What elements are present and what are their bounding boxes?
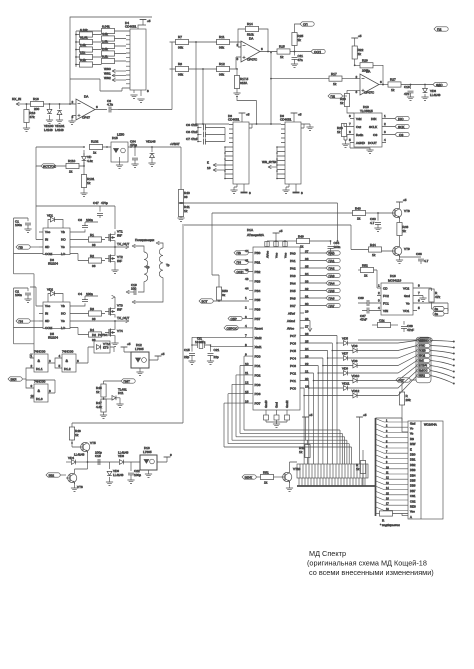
- svg-text:36k: 36k: [178, 46, 183, 50]
- svg-text:TX_OUT: TX_OUT: [117, 316, 129, 320]
- svg-text:3: 3: [384, 130, 386, 134]
- resistor R54 bottom: [372, 319, 398, 328]
- resistor R18 to gnd: [24, 104, 36, 128]
- svg-text:R17: R17: [331, 72, 337, 76]
- svg-text:AVcc: AVcc: [266, 251, 270, 258]
- wire connector to thick bus: [299, 478, 365, 486]
- resistor R8: [172, 62, 217, 77]
- ground D10 AGND: [350, 143, 374, 154]
- svg-text:22p: 22p: [214, 355, 219, 359]
- svg-text:D1.2: D1.2: [64, 367, 71, 371]
- svg-text:PA4: PA4: [290, 282, 296, 286]
- svg-text:100n: 100n: [15, 293, 22, 297]
- net flag out3: [433, 82, 447, 87]
- svg-text:LL4148: LL4148: [118, 451, 129, 455]
- svg-text:1: 1: [384, 114, 386, 118]
- svg-text:R110: R110: [68, 159, 75, 163]
- svg-text:5: 5: [418, 306, 420, 310]
- svg-text:PA6: PA6: [290, 297, 296, 301]
- svg-text:LO: LO: [61, 326, 66, 330]
- svg-text:WC1604A: WC1604A: [424, 423, 437, 427]
- ground C04: [131, 164, 138, 167]
- svg-text:IRF: IRF: [117, 234, 122, 238]
- svg-text:8.2k: 8.2k: [80, 58, 86, 62]
- svg-text:4.7н: 4.7н: [107, 103, 113, 107]
- svg-text:8: 8: [147, 89, 149, 93]
- op-amp D5 OP37: [70, 95, 107, 122]
- node dot R7/R11: [195, 41, 238, 70]
- ground C30: [374, 228, 381, 231]
- svg-text:6: 6: [380, 80, 382, 84]
- resistor R110: [66, 159, 79, 174]
- svg-text:R52: R52: [362, 264, 368, 268]
- svg-text:ПН: ПН: [237, 261, 241, 265]
- diode VD146: [146, 140, 156, 164]
- svg-text:OP07C: OP07C: [364, 91, 375, 95]
- transistor VT5: [72, 441, 96, 462]
- svg-text:FC1: FC1: [383, 302, 389, 306]
- svg-text:LO: LO: [61, 252, 66, 256]
- resistor R11: [217, 35, 242, 50]
- svg-text:2: 2: [378, 291, 380, 295]
- capacitor C2 100n: [15, 288, 31, 299]
- svg-text:DB2: DB2: [410, 463, 416, 467]
- svg-text:VD10: VD10: [352, 374, 360, 378]
- resistor R2: [74, 254, 105, 269]
- svg-text:PC0: PC0: [290, 387, 296, 391]
- resistor R29 feedback: [355, 59, 383, 85]
- power +5 D12 out: [155, 352, 165, 356]
- node dots D8 bus: [224, 146, 226, 179]
- svg-text:ЗВУК: ЗВУК: [245, 476, 253, 480]
- net box ВВОД: [417, 354, 454, 360]
- wire audio bottom rail: [358, 339, 418, 341]
- svg-text:Reset: Reset: [255, 326, 263, 330]
- svg-text:22p: 22p: [184, 355, 189, 359]
- node dots PC drops: [303, 342, 338, 396]
- svg-text:PC7: PC7: [290, 334, 296, 338]
- connector shell X3: [416, 337, 431, 383]
- svg-text:+5: +5: [279, 229, 283, 233]
- net flag ПИТ: [104, 379, 136, 384]
- net flag ПД2: [328, 94, 347, 99]
- ground R41: [177, 218, 184, 221]
- resistor R12: [217, 57, 242, 77]
- svg-text:TX_OUT: TX_OUT: [117, 242, 129, 246]
- svg-text:3: 3: [237, 57, 239, 61]
- svg-text:ВКЛЦ: ВКЛЦ: [419, 375, 426, 378]
- svg-text:+5: +5: [246, 113, 250, 117]
- capacitor C38 47nF: [401, 321, 414, 332]
- diode VD101: [55, 104, 65, 132]
- svg-text:R27: R27: [390, 78, 396, 82]
- svg-text:36: 36: [184, 195, 188, 199]
- ground D10 left: [342, 144, 349, 147]
- svg-text:27: 27: [305, 324, 309, 328]
- net flag ЗВ2: [46, 473, 66, 478]
- svg-text:1k: 1k: [337, 130, 341, 134]
- node dots cap bus: [197, 127, 199, 143]
- ground CD4051 D4: [130, 95, 137, 98]
- resistor R57 contrast: [356, 450, 366, 486]
- svg-text:2: 2: [356, 75, 358, 79]
- svg-text:AVcc: AVcc: [287, 327, 294, 331]
- capacitor C1 100n: [15, 218, 31, 229]
- power bar D9: [291, 113, 302, 123]
- resistor R52: [358, 264, 377, 289]
- svg-text:COM: COM: [45, 326, 53, 330]
- resistor R14 feedback: [246, 22, 259, 37]
- wire audio row: [88, 461, 141, 463]
- svg-text:ПА7: ПА7: [329, 304, 335, 308]
- svg-text:CS2: CS2: [410, 499, 416, 503]
- svg-text:1k: 1k: [372, 253, 376, 257]
- node dots mid bus: [195, 123, 257, 125]
- svg-text:Xtal2: Xtal2: [255, 336, 262, 340]
- ground R18: [23, 128, 30, 131]
- wire COM2: [14, 327, 40, 329]
- svg-text:AGnd: AGnd: [287, 319, 295, 323]
- svg-text:DIO: DIO: [398, 117, 404, 121]
- gate D1.1 74HC00: [30, 350, 52, 373]
- svg-text:МЕНЮ: МЕНЮ: [419, 340, 427, 343]
- svg-text:ATmega32A: ATmega32A: [247, 233, 265, 237]
- net box МЕНЮ: [417, 339, 454, 343]
- capacitor C8 4.7n: [107, 99, 118, 113]
- net flag ПА5: [304, 288, 340, 293]
- svg-text:2.0k: 2.0k: [102, 47, 108, 51]
- svg-text:100n: 100n: [15, 223, 22, 227]
- svg-text:6: 6: [261, 47, 263, 51]
- transistor VT10: [281, 462, 301, 488]
- svg-text:C39: C39: [358, 296, 364, 300]
- diode VD7: [328, 351, 417, 361]
- capacitor C36: [400, 252, 429, 264]
- svg-text:2: 2: [72, 100, 74, 104]
- svg-text:1k: 1k: [184, 209, 188, 213]
- svg-text:ВСТ: ВСТ: [202, 300, 208, 304]
- svg-text:Gnd0: Gnd0: [264, 400, 268, 408]
- svg-text:МД Спектр: МД Спектр: [309, 549, 346, 558]
- svg-text:ПА4: ПА4: [329, 282, 335, 286]
- svg-text:R49: R49: [298, 235, 304, 239]
- net flag ИСТ ТОК: [41, 164, 56, 169]
- svg-text:PB7: PB7: [255, 317, 261, 321]
- net flag SCK: [395, 116, 409, 121]
- svg-text:C7 47nF: C7 47nF: [186, 137, 198, 141]
- svg-text:PA7: PA7: [290, 304, 296, 308]
- resistor R3: [74, 307, 105, 321]
- ground R47: [100, 415, 107, 418]
- svg-text:Vb: Vb: [61, 230, 65, 234]
- svg-text:100p: 100p: [95, 451, 102, 455]
- gate D1.2 74HC00: [58, 350, 80, 373]
- svg-text:+5: +5: [147, 19, 151, 23]
- svg-text:VD1: VD1: [47, 214, 53, 218]
- svg-text:Тр: Тр: [166, 263, 170, 267]
- svg-text:PA2: PA2: [290, 267, 296, 271]
- svg-text:* подбирается: * подбирается: [380, 523, 400, 527]
- svg-text:29: 29: [305, 309, 309, 313]
- net flag ПА0: [304, 251, 340, 256]
- svg-text:WS_SYNC: WS_SYNC: [262, 160, 278, 164]
- net box ВЫХ: [417, 359, 454, 366]
- svg-text:VT4: VT4: [117, 329, 123, 333]
- svg-text:C18: C18: [95, 454, 101, 458]
- net flag КЕД: [396, 378, 416, 392]
- wire AGnd: [304, 321, 312, 332]
- net flag МС: [418, 338, 432, 343]
- svg-text:C16: C16: [404, 85, 410, 89]
- svg-text:1k: 1k: [391, 88, 395, 92]
- svg-text:1.3k: 1.3k: [80, 43, 86, 47]
- node dot VT8 base: [377, 212, 379, 214]
- wire op-amp1 out to R7/R8: [118, 42, 172, 110]
- power +5 bar fan right: [356, 413, 367, 464]
- svg-text:8: 8: [249, 191, 251, 195]
- ground D9: [282, 184, 289, 193]
- node dot R45/R47: [103, 398, 105, 400]
- svg-text:Vs: Vs: [61, 319, 65, 323]
- node dot VT3 source: [114, 320, 116, 322]
- svg-text:со всеми внесенными изменениям: со всеми внесенными изменениями): [309, 568, 434, 577]
- svg-text:RX_IN: RX_IN: [12, 97, 21, 101]
- svg-text:+5: +5: [403, 198, 407, 202]
- power +5 bar fan left: [302, 413, 313, 440]
- svg-text:CD4051: CD4051: [125, 25, 137, 29]
- zener D11 TL431: [104, 388, 128, 408]
- transistor VT14: [103, 342, 111, 350]
- wire thick bus line: [297, 485, 376, 487]
- svg-text:PD7: PD7: [255, 402, 261, 406]
- svg-text:Vdd: Vdd: [356, 117, 362, 121]
- svg-text:9: 9: [170, 453, 172, 457]
- svg-text:7: 7: [349, 122, 351, 126]
- svg-text:1k: 1k: [96, 390, 100, 394]
- svg-text:IRF: IRF: [117, 308, 122, 312]
- ground D16 gnd pin: [417, 296, 427, 302]
- capacitor C4 bootstrap: [74, 292, 98, 306]
- svg-text:С2к: С2к: [379, 319, 385, 323]
- regulator D13 L7805: [140, 446, 167, 474]
- node dots D9 bus: [276, 146, 278, 179]
- resistor R15: [277, 45, 311, 60]
- resistor R51: [261, 471, 282, 485]
- svg-text:ARef: ARef: [288, 312, 295, 316]
- svg-text:PD0: PD0: [255, 355, 261, 359]
- svg-text:C4: C4: [78, 292, 82, 296]
- svg-text:К: К: [207, 161, 209, 165]
- svg-text:C47: C47: [93, 201, 99, 205]
- diode VD2 bootstrap: [47, 288, 63, 303]
- transistor VT4 IRF740: [105, 321, 123, 343]
- svg-text:21k: 21k: [80, 51, 85, 55]
- capacitor C3 bootstrap: [74, 218, 98, 232]
- capacitor C19 100n: [126, 283, 137, 295]
- diode VD12: [304, 376, 417, 398]
- op-amp D6 OP07 stage2: [237, 29, 278, 62]
- svg-text:R1: R1: [90, 233, 94, 237]
- power bar D8: [239, 113, 250, 123]
- svg-text:VD146: VD146: [146, 140, 156, 144]
- svg-text:COM: COM: [45, 252, 53, 256]
- svg-text:SCK: SCK: [398, 125, 405, 129]
- diode VD100: [44, 104, 54, 132]
- svg-text:2: 2: [31, 364, 33, 368]
- ground C16: [407, 97, 414, 100]
- svg-text:ПА3: ПА3: [329, 274, 335, 278]
- net flag Reset: [228, 316, 249, 321]
- bottom pins: [266, 410, 287, 424]
- wire bus line B: [184, 225, 369, 250]
- svg-text:HO: HO: [61, 238, 66, 242]
- wire bus line R40 node to VT8 supply: [181, 203, 338, 241]
- svg-text:СБР: СБР: [231, 317, 237, 321]
- ground C11: [291, 64, 298, 67]
- net +VBAT: [152, 142, 181, 147]
- svg-text:СБРОС: СБРОС: [227, 326, 239, 330]
- diode VD11: [309, 371, 417, 391]
- resistor R43: [353, 207, 379, 221]
- svg-text:6: 6: [77, 359, 79, 363]
- svg-text:+5: +5: [309, 413, 313, 417]
- transistor VT6: [66, 462, 88, 489]
- svg-text:6.19k: 6.19k: [80, 28, 88, 32]
- svg-text:36k: 36k: [219, 73, 224, 77]
- svg-text:5: 5: [349, 138, 351, 142]
- svg-text:TLC5615: TLC5615: [360, 109, 373, 113]
- svg-text:D16: D16: [390, 274, 396, 278]
- svg-text:CD4051: CD4051: [228, 118, 240, 122]
- net flag ПА4: [304, 281, 340, 286]
- ground ATmega bottom: [273, 424, 280, 427]
- wire R55 to bus top: [376, 418, 403, 421]
- net flag ЗВУК: [242, 475, 261, 480]
- svg-text:1k: 1k: [298, 38, 302, 42]
- capacitor C30: [370, 213, 381, 228]
- connector X2 strip: [297, 464, 368, 478]
- svg-text:PC3: PC3: [290, 364, 296, 368]
- svg-text:Зв: Зв: [435, 307, 439, 311]
- svg-text:1k: 1k: [69, 170, 73, 174]
- svg-text:8: 8: [49, 389, 51, 393]
- svg-text:Gnd: Gnd: [275, 402, 279, 408]
- ground op-amp pin3: [68, 121, 75, 124]
- svg-text:100µ: 100µ: [134, 473, 141, 477]
- svg-text:1k: 1k: [299, 450, 303, 454]
- net box ВЫКЛ: [417, 369, 454, 378]
- svg-text:47k: 47k: [30, 115, 35, 119]
- crystal Cr1 16MHz: [192, 337, 249, 349]
- diode VD8a: [323, 356, 417, 368]
- svg-text:CS: CS: [399, 133, 403, 137]
- svg-text:CS1: CS1: [410, 494, 416, 498]
- speaker connector Зв1: [432, 307, 449, 317]
- node dot VT5: [71, 442, 88, 463]
- svg-text:2: 2: [245, 305, 247, 309]
- svg-text:FC2: FC2: [383, 294, 389, 298]
- net flag PB1: [234, 260, 249, 265]
- node dots net box ends: [453, 341, 455, 385]
- svg-text:VD12: VD12: [352, 389, 360, 393]
- svg-text:Vo: Vo: [410, 432, 414, 436]
- svg-text:VT10: VT10: [293, 467, 301, 471]
- svg-text:Зв: Зв: [435, 312, 439, 316]
- resistor R1: [74, 233, 105, 247]
- svg-text:470µ: 470µ: [130, 143, 137, 147]
- IC D9 CD4051 mid-right: [277, 114, 304, 184]
- svg-text:КТ3: КТ3: [103, 346, 109, 350]
- power bar R22: [351, 34, 362, 38]
- svg-text:8: 8: [301, 191, 303, 195]
- svg-text:DB0: DB0: [410, 453, 416, 457]
- capacitor C7 47nF: [186, 137, 225, 145]
- svg-text:L4148: L4148: [44, 128, 53, 132]
- svg-text:DB7: DB7: [410, 489, 416, 493]
- svg-text:D1.3: D1.3: [36, 397, 43, 401]
- diode VD3: [423, 85, 441, 98]
- wire op-amp2 out to stage3: [271, 53, 329, 125]
- resistor R27: [388, 78, 433, 93]
- svg-text:ПА5: ПА5: [329, 289, 335, 293]
- svg-text:MC34119: MC34119: [388, 279, 401, 283]
- svg-text:+VBAT: +VBAT: [170, 142, 180, 146]
- power bar D13 out: [164, 453, 172, 457]
- capacitor C9 47nF: [186, 123, 225, 131]
- wire left cap bus 1: [14, 218, 35, 354]
- svg-text:R7: R7: [178, 35, 182, 39]
- svg-text:ВЫНОС: ВЫНОС: [419, 370, 428, 373]
- svg-text:D2: D2: [92, 333, 96, 337]
- IC D5 IR2104 driver2: [39, 302, 74, 340]
- svg-text:36: 36: [92, 243, 96, 247]
- resistor R16 input: [25, 97, 70, 111]
- svg-text:IR2104: IR2104: [48, 336, 58, 340]
- wire COM1: [14, 253, 40, 255]
- svg-text:Refin: Refin: [356, 133, 364, 137]
- ground C2: [24, 299, 31, 302]
- ground D12: [136, 372, 143, 375]
- ground D8: [230, 184, 237, 193]
- svg-text:6: 6: [418, 299, 420, 303]
- svg-text:PA0: PA0: [290, 252, 296, 256]
- wire PD nested corners: [244, 356, 340, 464]
- svg-text:SYNC: SYNC: [419, 345, 426, 348]
- svg-text:Vcc: Vcc: [275, 252, 279, 258]
- svg-text:D1.1: D1.1: [36, 367, 43, 371]
- svg-text:Vee: Vee: [410, 510, 415, 514]
- svg-text:9: 9: [31, 384, 33, 388]
- svg-text:+5: +5: [363, 413, 367, 417]
- ground R101: [80, 193, 87, 196]
- ground VT4: [111, 343, 118, 346]
- svg-text:1k: 1k: [340, 101, 344, 105]
- svg-text:LL4148: LL4148: [113, 473, 124, 477]
- ground VT2: [111, 270, 118, 273]
- resistor R22 vertical: [352, 38, 364, 65]
- diode VD8: [118, 451, 129, 465]
- svg-text:1k: 1k: [403, 229, 407, 233]
- svg-text:ВКЛ: ВКЛ: [11, 378, 17, 382]
- svg-text:A: A: [410, 515, 412, 519]
- svg-text:VD6: VD6: [352, 344, 358, 348]
- net flag WSD: [311, 49, 325, 54]
- svg-text:16: 16: [207, 166, 211, 170]
- resistor R50: [216, 287, 228, 301]
- capacitor C22 100u: [127, 462, 141, 483]
- svg-text:DB6: DB6: [410, 484, 416, 488]
- svg-text:ПА1: ПА1: [329, 259, 335, 263]
